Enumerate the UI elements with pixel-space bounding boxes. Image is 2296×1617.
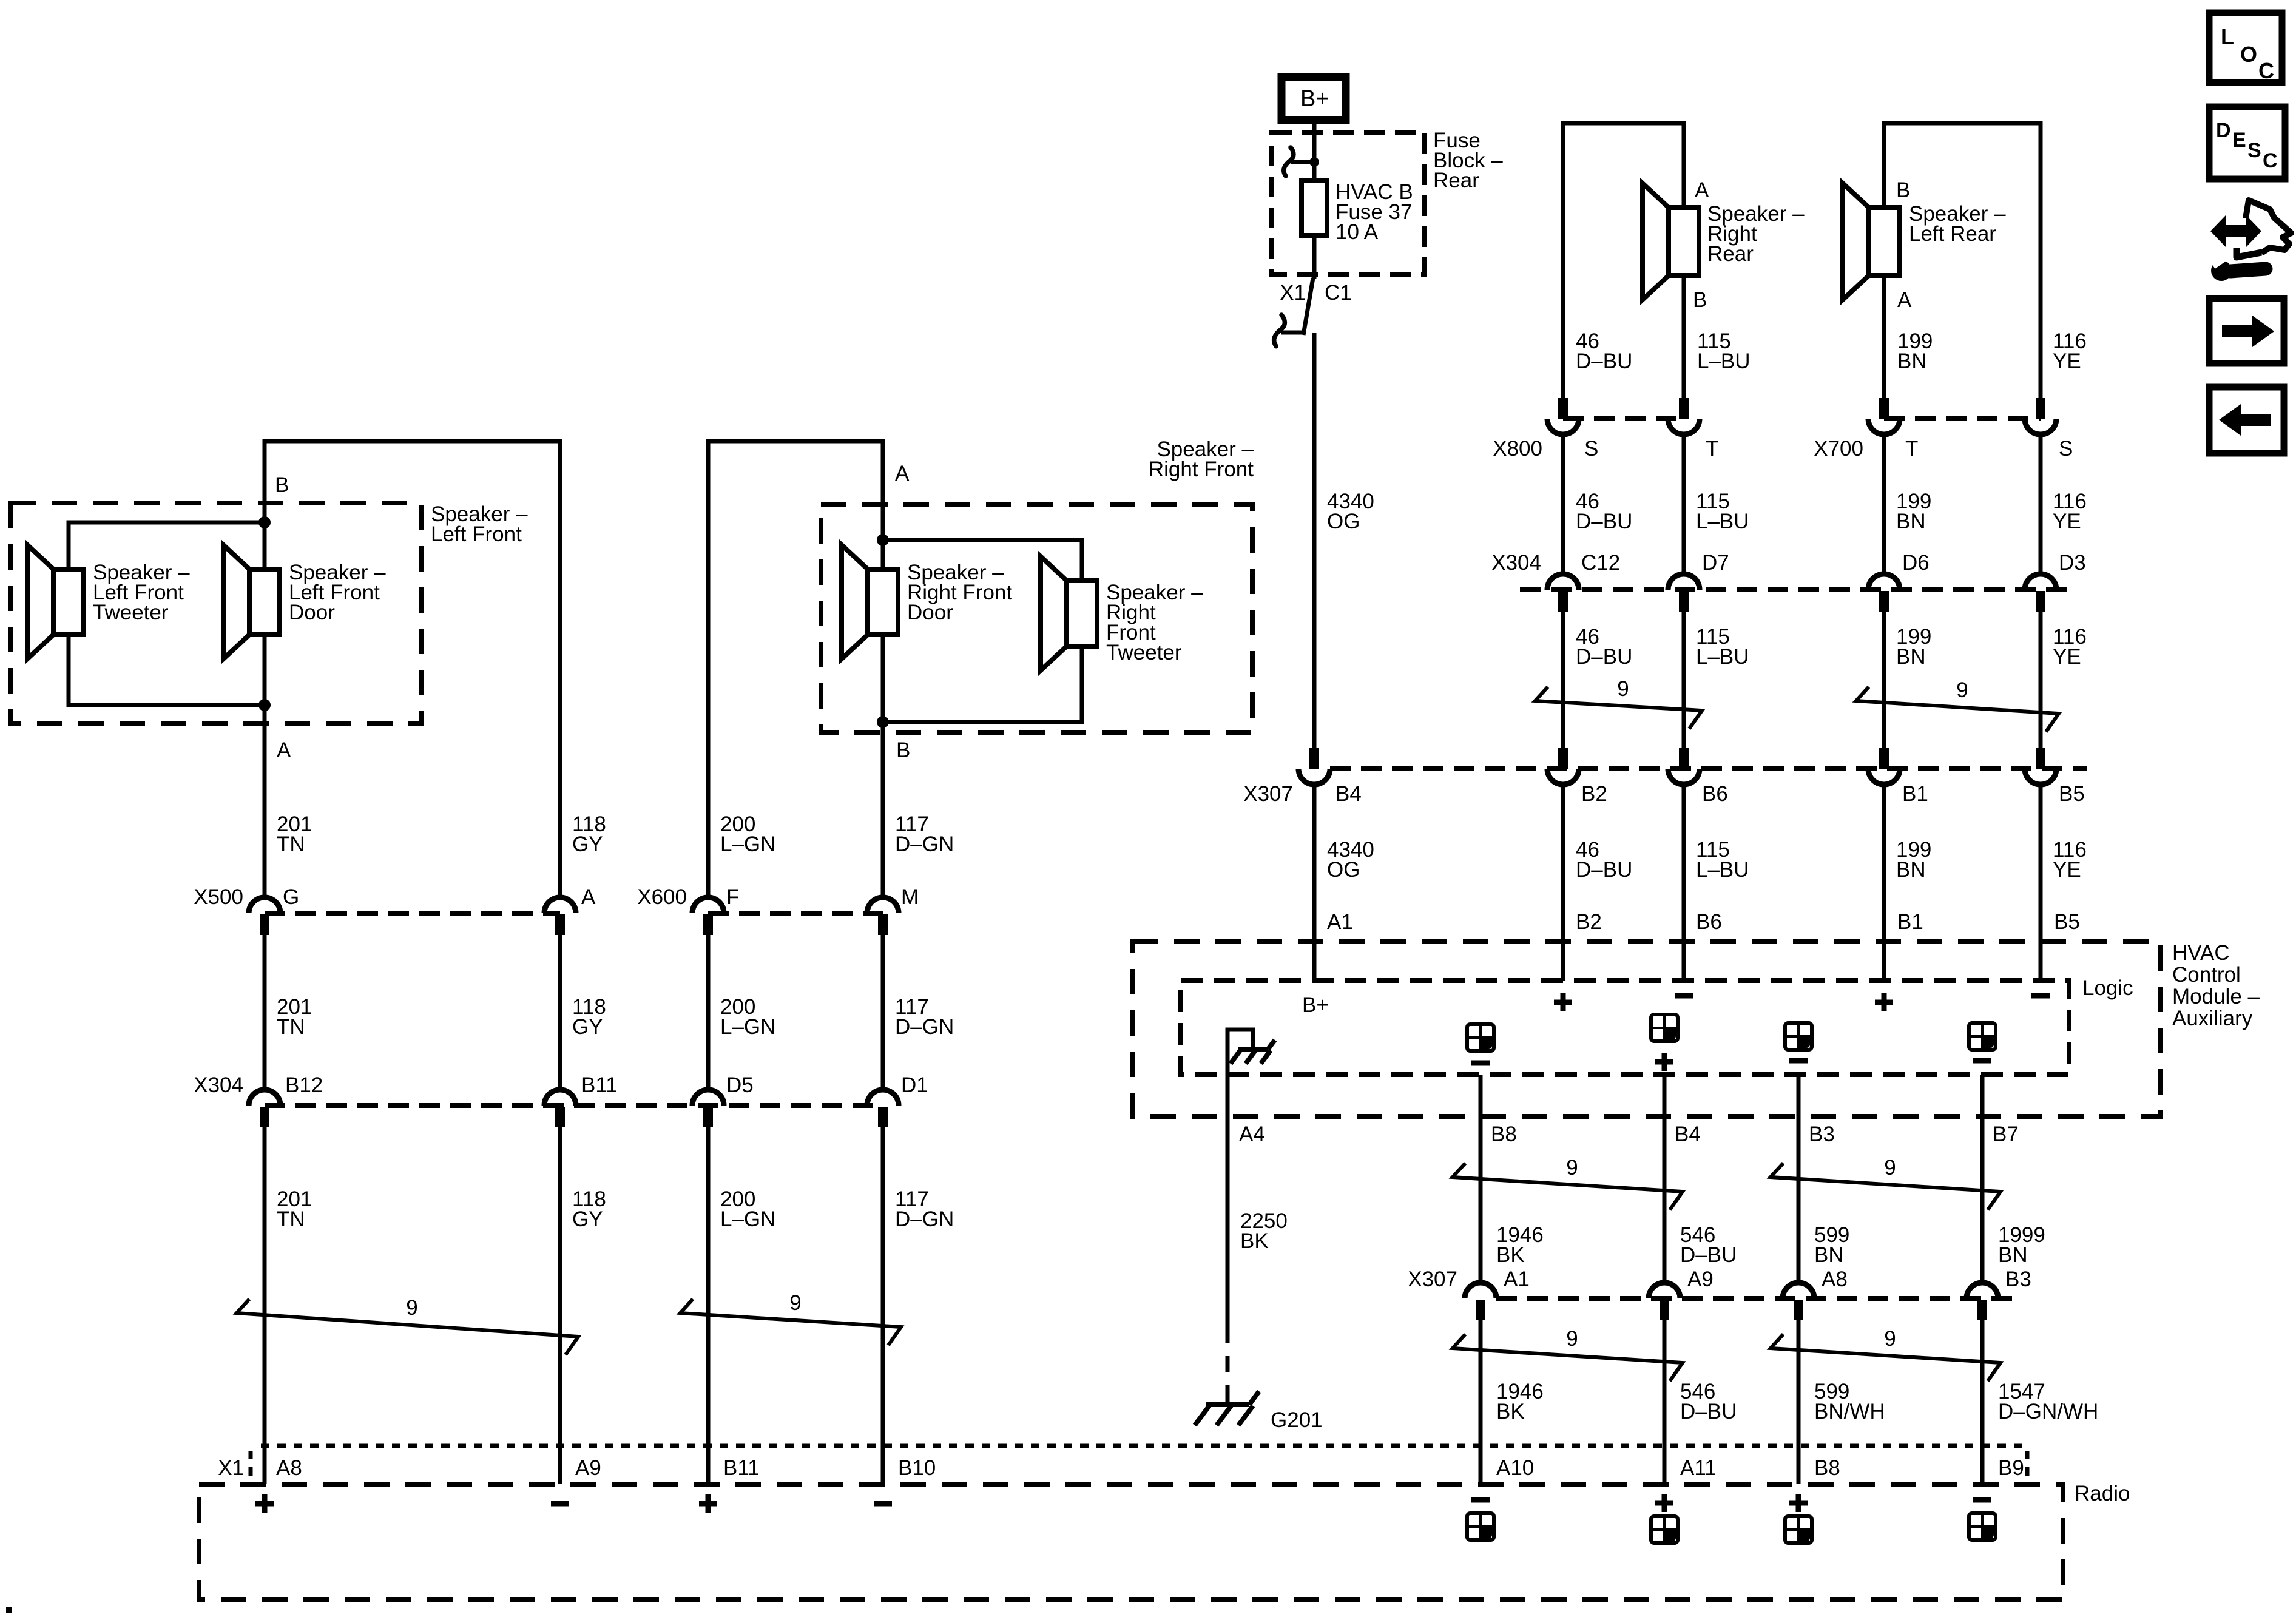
connector X800 pin T (1679, 398, 1689, 419)
wire 199 BN X304 to X307 (1882, 610, 1886, 749)
connector row X1 dotted line (261, 1444, 2022, 1448)
speaker Right Rear (1643, 183, 1669, 300)
svg-text:D–GN/WH: D–GN/WH (1998, 1400, 2098, 1423)
twisted pair symbol 9 rear left pair (1535, 687, 1702, 729)
svg-text:B: B (1693, 288, 1707, 312)
connector X307 pin B2 (1558, 748, 1568, 769)
wire 116 YE X700 to X304 (2039, 433, 2043, 576)
twisted pair symbol 9 module right pair (1771, 1163, 2001, 1210)
node junction right-front A side (877, 534, 889, 546)
svg-text:BN: BN (1896, 858, 1926, 882)
svg-text:HVAC: HVAC (2172, 941, 2230, 965)
svg-text:A1: A1 (1504, 1268, 1530, 1291)
window icon at A11 (1651, 1516, 1678, 1543)
connector row X307 dashed line (1330, 766, 2087, 771)
svg-text:S: S (2059, 437, 2073, 461)
wire left-front positive (201 TN) vertical (263, 439, 267, 900)
svg-text:C1: C1 (1325, 281, 1352, 305)
svg-text:9: 9 (406, 1296, 417, 1320)
svg-text:Right Front: Right Front (1149, 457, 1254, 481)
legend box arrow left (2209, 387, 2284, 453)
svg-text:Rear: Rear (1707, 242, 1754, 266)
wire 115 L-BU X307 to module (1682, 783, 1686, 981)
svg-text:D–BU: D–BU (1576, 510, 1632, 533)
svg-text:C12: C12 (1581, 551, 1620, 575)
connector row X800 dashed line (1563, 416, 1684, 421)
twisted pair symbol 9 right front (680, 1299, 901, 1345)
svg-text:B4: B4 (1335, 782, 1362, 806)
svg-text:Logic: Logic (2082, 976, 2133, 1000)
svg-text:D–BU: D–BU (1576, 349, 1632, 373)
connector X307 pin B4 (1309, 748, 1319, 769)
svg-text:D6: D6 (1902, 551, 1930, 575)
svg-text:B6: B6 (1702, 782, 1728, 806)
svg-text:B11: B11 (723, 1456, 760, 1480)
polarity - at B5 input (2031, 993, 2050, 999)
svg-text:E: E (2232, 129, 2246, 152)
svg-text:X304: X304 (194, 1073, 243, 1097)
legend icon double arrow with part outline and wrench (2210, 215, 2261, 247)
svg-text:Auxiliary: Auxiliary (2172, 1007, 2253, 1030)
legend box LOC (2209, 13, 2282, 83)
svg-text:BN: BN (1897, 349, 1927, 373)
wire 199 BN X700 to X304 (1882, 433, 1886, 576)
svg-text:D3: D3 (2059, 551, 2086, 575)
connector X307 pin B1 (1879, 748, 1889, 769)
svg-text:G201: G201 (1271, 1408, 1323, 1432)
wire 2250 BK module ground output (1226, 1075, 1230, 1327)
connector X500 pin A (544, 897, 576, 913)
node junction left-front A side (258, 699, 271, 711)
svg-text:Left Rear: Left Rear (1909, 222, 1996, 246)
svg-text:B5: B5 (2059, 782, 2085, 806)
polarity - at A9 (551, 1501, 569, 1507)
svg-text:L–BU: L–BU (1696, 645, 1749, 669)
svg-text:B3: B3 (1809, 1122, 1835, 1146)
svg-text:L: L (2221, 24, 2234, 49)
connector X304 pin D7 (1668, 574, 1700, 590)
svg-text:B3: B3 (2005, 1268, 2031, 1291)
wire left-rear loop (1884, 123, 2041, 399)
svg-text:9: 9 (1566, 1327, 1578, 1351)
svg-text:B1: B1 (1902, 782, 1928, 806)
component box Speaker - Left Front (dashed) (10, 503, 421, 724)
svg-text:F: F (726, 885, 739, 909)
polarity + at A11 (1655, 1501, 1673, 1506)
svg-text:D–GN: D–GN (895, 832, 954, 856)
svg-text:BN/WH: BN/WH (1814, 1400, 1885, 1423)
svg-text:B6: B6 (1696, 910, 1722, 934)
svg-text:S: S (2247, 139, 2261, 162)
svg-text:A4: A4 (1239, 1122, 1265, 1146)
svg-text:G: G (283, 885, 299, 909)
connector X304 pin B12 (249, 1090, 280, 1106)
svg-text:A: A (895, 462, 910, 485)
speaker Left Front Door (223, 545, 249, 659)
svg-text:YE: YE (2053, 858, 2081, 882)
window icon at B8 radio (1785, 1516, 1812, 1543)
svg-text:L–BU: L–BU (1697, 349, 1751, 373)
wire fuse to X1 C1 (1312, 235, 1317, 279)
wire B+ to fuse (1312, 120, 1317, 180)
wire 1999 BN module to X307 (1980, 1075, 1985, 1285)
wire 546 D-BU X307 to radio (1663, 1318, 1667, 1484)
polarity + at B11 (699, 1501, 717, 1507)
svg-text:B+: B+ (1302, 993, 1329, 1017)
connector row X307 second dashed line (1496, 1296, 2021, 1301)
polarity + at B1 input (1875, 1000, 1893, 1005)
wire 1547 D-GN-WH X307 to radio (1980, 1318, 1985, 1484)
svg-text:A9: A9 (575, 1456, 601, 1480)
svg-text:BK: BK (1496, 1243, 1525, 1267)
clip symbol fuse block (1309, 157, 1319, 167)
polarity + at B2 input (1554, 1000, 1572, 1005)
wire 546 D-BU module to X307 (1663, 1075, 1667, 1285)
svg-text:Radio: Radio (2075, 1482, 2130, 1505)
svg-text:A: A (1897, 288, 1912, 312)
connector X700 pin S (2036, 398, 2045, 419)
svg-text:10 A: 10 A (1335, 220, 1379, 244)
svg-text:B: B (275, 473, 289, 497)
connector X304 pin C12 (1547, 574, 1579, 590)
svg-text:X304: X304 (1491, 551, 1541, 575)
svg-text:BK: BK (1496, 1400, 1525, 1423)
svg-text:S: S (1584, 437, 1598, 461)
wire dashed to G201 (1226, 1327, 1230, 1396)
wire logic internal ground hook (1227, 1030, 1253, 1076)
speaker Right Front Door (842, 545, 868, 659)
twisted pair symbol 9 radio right pair (1771, 1334, 2001, 1381)
svg-text:B2: B2 (1576, 910, 1602, 934)
svg-text:T: T (1706, 437, 1718, 461)
svg-text:B8: B8 (1814, 1456, 1840, 1480)
twisted pair symbol 9 module left pair (1453, 1163, 1683, 1210)
svg-text:X800: X800 (1493, 437, 1542, 461)
svg-text:A10: A10 (1496, 1456, 1534, 1480)
wire 116 YE X307 to module (2039, 783, 2043, 981)
svg-text:X600: X600 (637, 885, 687, 909)
connector X307 pin A1 (1465, 1283, 1496, 1298)
svg-text:GY: GY (572, 832, 603, 856)
svg-text:A: A (277, 738, 291, 762)
svg-text:GY: GY (572, 1015, 603, 1039)
svg-text:X500: X500 (194, 885, 243, 909)
svg-text:D–BU: D–BU (1680, 1243, 1737, 1267)
twisted pair symbol 9 rear right pair (1856, 687, 2059, 732)
svg-text:OG: OG (1327, 858, 1360, 882)
connector X307 pin B3 (1967, 1283, 1998, 1298)
svg-text:B+: B+ (1300, 86, 1329, 112)
svg-text:Tweeter: Tweeter (93, 601, 169, 624)
svg-text:B: B (1896, 178, 1910, 202)
polarity + at A8 (255, 1501, 274, 1507)
connector row X500 dashed line (265, 911, 560, 916)
wire 115 L-BU X800 to X304 (1682, 433, 1686, 576)
connector X1 left notch (249, 1451, 253, 1484)
window icon at B4 output (1651, 1014, 1678, 1041)
wire left-front tweeter inner loop (69, 522, 265, 705)
svg-text:OG: OG (1327, 510, 1360, 533)
connector X700 pin T (1879, 398, 1889, 419)
window icon at B7 output (1969, 1023, 1996, 1050)
wire 46 D-BU X800 to X304 (1561, 433, 1565, 576)
svg-text:X307: X307 (1243, 782, 1293, 806)
connector row X304 left dashed line (265, 1103, 883, 1108)
connector X1 right notch (2025, 1451, 2030, 1484)
svg-text:D: D (2216, 119, 2231, 142)
svg-text:B11: B11 (581, 1073, 618, 1097)
svg-text:GY: GY (572, 1207, 603, 1231)
speaker Left Rear (1843, 183, 1869, 300)
wire left-front loop top (265, 439, 560, 444)
connector X304 pin D6 (1868, 574, 1900, 590)
polarity - at B10 (874, 1501, 892, 1507)
polarity - at B6 input (1675, 993, 1693, 999)
speaker Right Front Tweeter (1041, 556, 1067, 670)
ground chassis symbol logic internal (1238, 1047, 1268, 1052)
legend box DESC (2209, 107, 2285, 179)
terminal B+ box (1281, 77, 1346, 120)
svg-text:B10: B10 (898, 1456, 936, 1480)
polarity + at B4 output (1655, 1059, 1673, 1065)
svg-text:B8: B8 (1491, 1122, 1517, 1146)
wire 116 YE X304 to X307 (2039, 610, 2043, 749)
svg-text:YE: YE (2053, 645, 2081, 669)
svg-text:D5: D5 (726, 1073, 754, 1097)
component box Radio (dashed) (199, 1484, 2063, 1599)
svg-text:D7: D7 (1702, 551, 1729, 575)
connector X800 pin S (1558, 398, 1568, 419)
svg-text:A: A (581, 885, 596, 909)
svg-text:Tweeter: Tweeter (1106, 641, 1182, 664)
twisted pair symbol 9 left front (237, 1299, 578, 1355)
connector X304 pin B11 (544, 1090, 576, 1106)
svg-text:B2: B2 (1581, 782, 1607, 806)
svg-text:B1: B1 (1897, 910, 1923, 934)
wire 1946 BK module to X307 (1479, 1075, 1483, 1285)
svg-text:B5: B5 (2054, 910, 2080, 934)
svg-text:O: O (2240, 42, 2257, 67)
svg-text:TN: TN (277, 1015, 305, 1039)
svg-text:YE: YE (2053, 349, 2081, 373)
svg-text:D–BU: D–BU (1680, 1400, 1737, 1423)
svg-text:X1: X1 (218, 1456, 244, 1480)
svg-text:Control: Control (2172, 963, 2241, 987)
connector row X304 rear dashed line (1520, 587, 2075, 592)
wire right-front negative (117 D-GN) vertical (881, 439, 885, 900)
svg-text:X1: X1 (1280, 281, 1306, 305)
svg-text:YE: YE (2053, 510, 2081, 533)
svg-text:L–GN: L–GN (720, 1207, 775, 1231)
svg-text:D–BU: D–BU (1576, 858, 1632, 882)
svg-text:A: A (1695, 178, 1709, 202)
clip symbol X1 C1 (1303, 278, 1313, 335)
svg-text:D–GN: D–GN (895, 1207, 954, 1231)
svg-text:B4: B4 (1675, 1122, 1701, 1146)
svg-text:BN: BN (1814, 1243, 1844, 1267)
wire 4340 OG X307 to module (1312, 783, 1317, 981)
ground G201 chassis symbol (1206, 1402, 1249, 1407)
connector X600 pin M (867, 897, 899, 913)
svg-text:BN: BN (1998, 1243, 2028, 1267)
svg-text:B: B (896, 738, 910, 762)
wire 4340 OG to X307 (1312, 333, 1317, 749)
svg-text:C: C (2263, 149, 2278, 172)
polarity + at B8 radio (1789, 1501, 1808, 1506)
polarity - at B3 output (1789, 1058, 1808, 1064)
svg-text:Rear: Rear (1433, 169, 1479, 192)
svg-text:T: T (1905, 437, 1918, 461)
connector X307 pin A9 (1649, 1283, 1680, 1298)
window icon at B8 output (1467, 1024, 1494, 1051)
wire right-front positive (200 L-GN) vertical (706, 439, 711, 900)
twisted pair symbol 9 radio left pair (1453, 1334, 1683, 1381)
node junction left-front B side (258, 516, 271, 528)
svg-text:L–BU: L–BU (1696, 510, 1749, 533)
svg-text:D–GN: D–GN (895, 1015, 954, 1039)
svg-text:B12: B12 (285, 1073, 323, 1097)
svg-text:L–GN: L–GN (720, 832, 775, 856)
speaker Left Front Tweeter (27, 545, 53, 659)
svg-text:Door: Door (907, 601, 953, 624)
wire right-front loop top (708, 439, 883, 444)
svg-text:A8: A8 (276, 1456, 302, 1480)
polarity - at A10 (1471, 1497, 1490, 1503)
window icon at A10 (1467, 1513, 1494, 1540)
wire 599 BN module to X307 (1797, 1075, 1801, 1285)
connector X307 pin B5 (2036, 748, 2045, 769)
svg-text:X307: X307 (1408, 1268, 1457, 1291)
wire 199 BN X307 to module (1882, 783, 1886, 981)
svg-text:X700: X700 (1814, 437, 1863, 461)
svg-text:BN: BN (1896, 510, 1926, 533)
component box Speaker - Right Front (dashed) (821, 505, 1252, 732)
connector row X700 dashed line (1884, 416, 2041, 421)
wire right-rear loop (1563, 123, 1684, 399)
svg-text:TN: TN (277, 1207, 305, 1231)
svg-text:D1: D1 (901, 1073, 928, 1097)
svg-text:C: C (2258, 58, 2274, 83)
connector X304 pin D5 (692, 1090, 724, 1106)
wire 115 L-BU X304 to X307 (1682, 610, 1686, 749)
polarity - at B9 (1973, 1497, 1991, 1503)
node junction right-front B side (877, 716, 889, 728)
fuse HVAC B Fuse 37 10A (1302, 180, 1327, 235)
svg-text:Door: Door (289, 601, 335, 624)
component box HVAC Control Module - Auxiliary (dashed) (1133, 941, 2160, 1116)
component box Logic (dashed) (1181, 981, 2069, 1075)
wire 599 BN-WH X307 to radio (1797, 1318, 1801, 1484)
svg-text:A8: A8 (1822, 1268, 1848, 1291)
svg-text:A1: A1 (1327, 910, 1353, 934)
svg-text:BK: BK (1240, 1229, 1269, 1253)
component box Fuse Block - Rear (dashed) (1271, 132, 1425, 274)
connector X304 pin D3 (2025, 574, 2056, 590)
wire right-front tweeter inner loop (883, 540, 1082, 722)
wire 46 D-BU X304 to X307 (1561, 610, 1565, 749)
svg-text:9: 9 (789, 1291, 801, 1315)
svg-text:A9: A9 (1687, 1268, 1714, 1291)
svg-text:D–BU: D–BU (1576, 645, 1632, 669)
connector X307 pin A8 (1783, 1283, 1814, 1298)
wire 46 D-BU X307 to module (1561, 783, 1565, 981)
svg-text:9: 9 (1956, 678, 1968, 702)
svg-text:M: M (901, 885, 919, 909)
connector row X600 dashed line (708, 911, 883, 916)
connector X304 pin D1 (867, 1090, 899, 1106)
connector X500 pin G (249, 897, 280, 913)
window icon at B3 output (1785, 1023, 1812, 1050)
svg-text:9: 9 (1617, 677, 1629, 701)
svg-text:9: 9 (1566, 1156, 1578, 1180)
wire 1946 BK X307 to radio (1479, 1318, 1483, 1484)
svg-text:9: 9 (1884, 1156, 1896, 1180)
svg-text:9: 9 (1884, 1327, 1896, 1351)
legend box arrow right (2209, 299, 2284, 363)
svg-text:BN: BN (1896, 645, 1926, 669)
svg-text:A11: A11 (1680, 1456, 1717, 1480)
svg-text:Module –: Module – (2172, 985, 2260, 1008)
wire left-front negative (118 GY) vertical (558, 439, 562, 900)
connector X307 pin B6 (1679, 748, 1689, 769)
polarity - at B8 output (1471, 1061, 1490, 1066)
window icon at B9 (1969, 1513, 1996, 1540)
svg-text:Left Front: Left Front (431, 522, 522, 546)
svg-text:B9: B9 (1998, 1456, 2024, 1480)
svg-text:L–BU: L–BU (1696, 858, 1749, 882)
svg-text:L–GN: L–GN (720, 1015, 775, 1039)
svg-text:B7: B7 (1993, 1122, 2019, 1146)
connector X600 pin F (692, 897, 724, 913)
page mark bottom left (6, 1607, 12, 1613)
polarity - at B7 output (1973, 1058, 1991, 1064)
svg-text:TN: TN (277, 832, 305, 856)
